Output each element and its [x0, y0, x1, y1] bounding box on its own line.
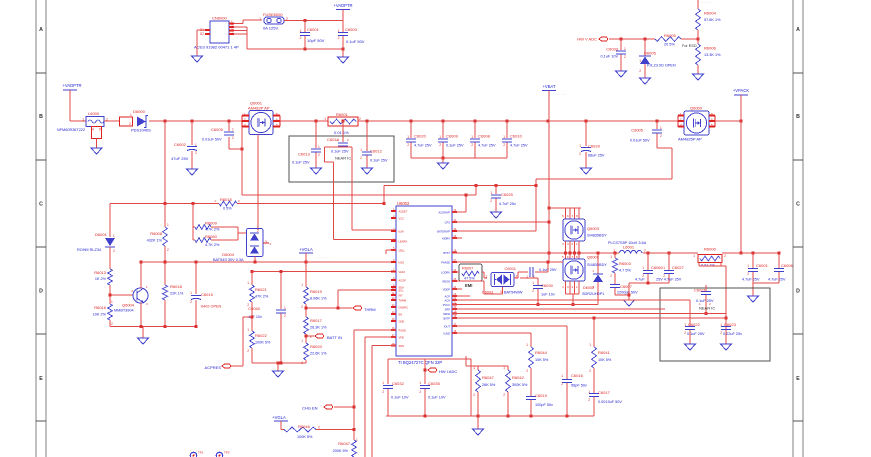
svg-text:R6018: R6018 [170, 284, 183, 289]
shield box (NEAR IC group 2) [660, 288, 770, 361]
wire CN6000 pins 2-4 bus [234, 27, 247, 49]
svg-text:C6007: C6007 [620, 284, 633, 289]
svg-text:R6001: R6001 [336, 112, 349, 117]
svg-text:R6022: R6022 [255, 333, 268, 338]
svg-text:4.7uF 25v: 4.7uF 25v [499, 202, 516, 206]
transistor Q6003 [562, 214, 607, 246]
svg-text:R6047: R6047 [338, 441, 351, 446]
capacitor C6023 [720, 317, 742, 343]
svg-text:1: 1 [356, 438, 358, 442]
svg-text:1uF 10v: 1uF 10v [541, 293, 555, 297]
svg-text:B: B [796, 114, 800, 120]
svg-text:R6016: R6016 [94, 305, 107, 310]
wire R6001 to Q6000 (main +VBAT rail) [315, 120, 679, 123]
wire source net upper [384, 184, 536, 204]
svg-text:1: 1 [284, 306, 286, 310]
power +VPACK [733, 88, 750, 95]
svg-text:2: 2 [300, 36, 302, 40]
capacitor C6008 [470, 121, 496, 158]
svg-text:x: x [270, 242, 272, 246]
svg-text:0.1uF 25V: 0.1uF 25V [331, 150, 349, 154]
svg-text:CPS: CPS [445, 220, 451, 224]
svg-text:1: 1 [589, 343, 591, 347]
svg-text:1: 1 [419, 381, 421, 385]
svg-text:R6021: R6021 [255, 287, 268, 292]
svg-text:2: 2 [532, 289, 534, 293]
wire C6011 out [535, 262, 548, 272]
svg-text:SRP: SRP [445, 307, 451, 311]
svg-text:2: 2 [301, 305, 303, 309]
resistor R6005 [655, 33, 700, 48]
wire C6005B to node [657, 148, 672, 179]
resistor R6019 [301, 262, 327, 317]
svg-text:2: 2 [301, 361, 303, 365]
svg-text:2: 2 [247, 349, 249, 353]
svg-text:IOUT: IOUT [444, 324, 451, 328]
svg-text:1: 1 [300, 29, 302, 33]
svg-text:C6015: C6015 [201, 292, 214, 297]
svg-text:1: 1 [503, 135, 505, 139]
resistor R6001 (sense) [324, 112, 361, 135]
svg-text:1: 1 [684, 323, 686, 327]
svg-text:R6017: R6017 [310, 318, 323, 323]
svg-text:2: 2 [720, 331, 722, 335]
wire Q6003 gate tie [548, 208, 581, 219]
wire U6002 riser3 [372, 346, 396, 457]
svg-text:C6032: C6032 [392, 381, 405, 386]
svg-text:13.3K 1%: 13.3K 1% [704, 53, 721, 57]
svg-text:26.3K 1%: 26.3K 1% [310, 326, 327, 330]
svg-text:ACP: ACP [445, 294, 451, 298]
wire R6047/R6042 feed [466, 356, 508, 366]
capacitor C6002 (polarized) [171, 121, 197, 162]
svg-text:2: 2 [419, 390, 421, 394]
svg-text:R6041: R6041 [598, 350, 611, 355]
connector CN6000 [194, 16, 239, 50]
svg-text:1: 1 [247, 328, 249, 332]
svg-text:R6005: R6005 [664, 33, 677, 38]
svg-text:100K 5%: 100K 5% [255, 341, 271, 345]
wire source net step [465, 186, 477, 213]
wire bus SRN [452, 317, 726, 320]
transistor Q6001 [242, 101, 280, 135]
wire bottom ground rail [386, 415, 594, 418]
svg-text:R6013: R6013 [94, 270, 107, 275]
resistor R6060 [193, 234, 238, 247]
inductor L6000 [57, 111, 108, 139]
wire U6002 SDA/SCL stubs [386, 250, 396, 254]
svg-text:0 5%: 0 5% [223, 207, 232, 211]
svg-text:2: 2 [610, 274, 612, 278]
capacitor C6020 [406, 121, 432, 158]
svg-text:SI4835BDY: SI4835BDY [587, 263, 607, 267]
wire CN6000 shield to ground [197, 30, 205, 51]
svg-text:1: 1 [324, 117, 326, 121]
svg-text:432K 1%: 432K 1% [147, 239, 163, 243]
ground (divider tie) [273, 363, 284, 377]
svg-text:1: 1 [473, 366, 475, 370]
capacitor C6015 (polarized) [190, 262, 221, 328]
svg-text:B: B [39, 114, 43, 120]
svg-text:ACPRES: ACPRES [205, 365, 222, 370]
svg-text:C6005: C6005 [211, 127, 224, 132]
power +VGLA (bottom) [272, 415, 294, 430]
resistor R6017 [304, 317, 327, 343]
svg-text:4: 4 [231, 32, 233, 36]
capacitor C6001B [742, 253, 769, 283]
capacitor C6040 [248, 306, 286, 363]
svg-text:2: 2 [257, 229, 259, 233]
svg-text:+VBAT: +VBAT [542, 84, 556, 89]
wire +VBAT vertical [548, 91, 551, 263]
svg-text:2: 2 [503, 393, 505, 397]
svg-text:C6010: C6010 [510, 134, 523, 139]
wire cap bank ground rail [411, 157, 507, 160]
wire source net horizontal [242, 194, 476, 196]
svg-text:2: 2 [190, 300, 192, 304]
svg-text:2: 2 [284, 314, 286, 318]
wire ACPRES riser [231, 316, 254, 367]
svg-text:47uF 25V: 47uF 25V [171, 156, 189, 161]
capacitor C6030 [520, 278, 555, 306]
resistor R6015 [214, 197, 240, 211]
svg-text:Q6004: Q6004 [122, 303, 135, 308]
svg-text:CHG EN: CHG EN [302, 406, 318, 411]
wire Q6002 bottom tie [566, 281, 580, 306]
ground (C6013) [311, 163, 322, 174]
svg-text:1: 1 [490, 191, 492, 195]
svg-text:R6020: R6020 [310, 344, 323, 349]
svg-text:C6008: C6008 [478, 134, 491, 139]
svg-text:1: 1 [561, 374, 563, 378]
svg-text:1: 1 [259, 17, 261, 21]
svg-text:CELL: CELL [399, 248, 406, 252]
wire PHASE pin [452, 261, 563, 264]
svg-text:SRN: SRN [399, 344, 405, 348]
capacitor C6033 [600, 39, 626, 67]
svg-text:C6002: C6002 [174, 142, 187, 147]
svg-text:68uF 25V: 68uF 25V [588, 154, 605, 158]
wire U6002 riser2 [365, 337, 396, 457]
svg-text:4.7uF 25V: 4.7uF 25V [742, 278, 760, 282]
svg-text:R6019: R6019 [310, 289, 323, 294]
svg-text:2: 2 [111, 322, 113, 326]
wire main charge rail [452, 252, 779, 255]
svg-text:1: 1 [318, 145, 320, 149]
resistor R6047 [473, 366, 496, 416]
svg-text:PHASE: PHASE [441, 260, 450, 264]
wire divider feed [192, 204, 194, 241]
svg-text:+VGLA: +VGLA [299, 247, 313, 252]
ground (C6022) [685, 339, 696, 350]
svg-text:2: 2 [382, 390, 384, 394]
svg-text:4.7uF 25V: 4.7uF 25V [478, 144, 496, 148]
wire bottom return [247, 48, 345, 51]
power +VADPTR (top) [333, 3, 352, 21]
capacitor C6016 [561, 326, 587, 416]
wire Q6003 to rail [566, 241, 580, 253]
svg-text:2: 2 [579, 152, 581, 156]
svg-text:2: 2 [490, 199, 492, 203]
svg-text:D: D [39, 289, 43, 295]
net flag BATT IN [305, 334, 343, 340]
svg-text:CN6000: CN6000 [212, 16, 227, 21]
svg-text:For ESD: For ESD [682, 44, 697, 48]
svg-text:C6005: C6005 [631, 128, 644, 133]
ground (D6005) [640, 73, 651, 84]
net flag HW I ADC [424, 368, 458, 374]
wire bus PGND sense [452, 304, 598, 306]
svg-text:0.1uF 10V: 0.1uF 10V [428, 396, 446, 400]
wire L6000 to D6000 [104, 120, 119, 122]
ground (C6033) [616, 66, 627, 77]
svg-text:1K 2%: 1K 2% [95, 277, 107, 281]
svg-text:ACES 91982 00471 1 4P: ACES 91982 00471 1 4P [194, 45, 239, 50]
svg-text:2: 2 [644, 249, 646, 253]
svg-text:R6006: R6006 [704, 46, 717, 51]
resistor R6004 [696, 0, 721, 44]
svg-text:0.1uF 10V: 0.1uF 10V [600, 55, 618, 59]
svg-text:C6006: C6006 [781, 263, 794, 268]
capacitor C6021 [694, 285, 715, 315]
zener diode D6005 [639, 39, 676, 74]
wire Q6001 to R6001 [280, 120, 328, 122]
svg-text:0.1uF 50V: 0.1uF 50V [346, 39, 365, 44]
svg-text:IADJ: IADJ [399, 260, 405, 264]
svg-text:PDS1040S: PDS1040S [131, 128, 151, 133]
svg-text:CMSRC: CMSRC [399, 305, 409, 309]
wire VGLA rail [141, 261, 396, 264]
svg-text:C6001: C6001 [756, 263, 769, 268]
svg-text:1: 1 [232, 128, 234, 132]
wire HIDRV [452, 221, 548, 223]
wire C6014 right leg [352, 147, 396, 230]
wire bus ILIM [452, 332, 531, 334]
ground (C6025) [491, 207, 502, 218]
svg-text:26K 5%: 26K 5% [482, 383, 496, 387]
svg-text:2: 2 [747, 272, 749, 276]
svg-text:EN: EN [399, 312, 403, 316]
svg-text:C6035: C6035 [428, 381, 441, 386]
ground (cap bank) [438, 158, 449, 169]
svg-text:NEAR IC: NEAR IC [335, 156, 351, 161]
svg-text:10K 2%: 10K 2% [93, 313, 107, 317]
wire bus row4 [452, 308, 665, 310]
svg-text:NEAR IC: NEAR IC [699, 306, 715, 311]
wire Q6000 to +VPACK [715, 120, 743, 123]
svg-text:4.7uF 25V: 4.7uF 25V [768, 278, 786, 282]
wire R6021 net to U6002 [252, 270, 396, 273]
svg-text:R6046: R6046 [298, 424, 311, 429]
ground (C6029) [581, 163, 592, 174]
svg-text:2: 2 [526, 369, 528, 373]
svg-text:BAT54S 30V 0.3A: BAT54S 30V 0.3A [213, 258, 244, 262]
power +VBAT [542, 84, 565, 96]
capacitor C6019 [526, 393, 553, 416]
svg-text:C6012: C6012 [370, 149, 383, 154]
svg-text:THRM: THRM [364, 307, 376, 312]
wire CN6000 pin1 to fuse [234, 20, 262, 24]
inductor L6001 [608, 241, 647, 253]
svg-text:0.22uF 25v: 0.22uF 25v [723, 332, 742, 336]
svg-text:0.01uF 50V: 0.01uF 50V [630, 139, 650, 143]
svg-text:1: 1 [579, 144, 581, 148]
svg-text:1: 1 [382, 381, 384, 385]
wire C6005 to gate net [229, 137, 244, 151]
svg-text:0.0013uF 50V: 0.0013uF 50V [598, 400, 622, 404]
capacitor C6032 [382, 381, 409, 416]
wire U6002 EN riser1 [354, 330, 396, 440]
svg-text:THRM: THRM [399, 298, 407, 302]
wire BTST stub [452, 237, 462, 239]
svg-text:0.01 1%: 0.01 1% [334, 130, 349, 135]
ground (C6012) [362, 163, 373, 174]
svg-text:C6030: C6030 [541, 283, 554, 288]
svg-text:E: E [39, 376, 43, 382]
svg-text:C6027: C6027 [672, 265, 685, 270]
svg-text:ACOP: ACOP [399, 278, 407, 282]
ground (R6006) [693, 69, 704, 80]
svg-text:C6022: C6022 [688, 322, 701, 327]
svg-text:1: 1 [82, 118, 84, 122]
svg-text:2: 2 [113, 249, 115, 253]
svg-text:1: 1 [439, 135, 441, 139]
svg-text:R6044: R6044 [535, 350, 548, 355]
svg-text:0.1uF 25V: 0.1uF 25V [292, 161, 310, 165]
resistor R6042 [503, 366, 528, 416]
svg-text:BTST: BTST [443, 251, 450, 255]
ground (C6001/C6006) [748, 291, 759, 302]
svg-text:0.1uF 10V: 0.1uF 10V [391, 396, 409, 400]
svg-text:22K 1%: 22K 1% [170, 292, 184, 296]
svg-text:FUSE6000: FUSE6000 [263, 12, 283, 17]
svg-text:1: 1 [588, 390, 590, 394]
capacitor C6001 [300, 21, 325, 50]
svg-text:SCL: SCL [399, 288, 405, 292]
svg-text:C6029: C6029 [588, 144, 601, 149]
transistor Q6004 [114, 285, 148, 313]
svg-text:+VADPTR: +VADPTR [333, 3, 352, 8]
svg-text:HIDRV: HIDRV [442, 236, 450, 240]
zener diode D6001 [77, 204, 115, 270]
svg-text:C: C [39, 201, 43, 207]
svg-text:R6009: R6009 [205, 221, 218, 226]
resistor R6006 [696, 44, 721, 71]
svg-text:25V 4.7uF 25V: 25V 4.7uF 25V [656, 278, 682, 282]
net flag THRM [305, 306, 376, 312]
svg-text:E: E [796, 376, 800, 382]
wire C6001/C6006 tie [753, 283, 779, 294]
svg-text:1: 1 [503, 366, 505, 370]
svg-text:LEARN: LEARN [399, 239, 408, 243]
svg-text:D6005: D6005 [644, 51, 657, 56]
svg-text:100K 5%: 100K 5% [297, 435, 313, 439]
svg-text:2: 2 [588, 398, 590, 402]
transistor Q6000 [678, 106, 715, 142]
svg-text:INT: INT [399, 293, 404, 297]
wire bottom tie (R6022/C6040/R6020) [252, 362, 306, 365]
resistor R6020 [301, 339, 327, 365]
wire bottom tie row C [110, 325, 196, 328]
net flag HW V ADC [577, 37, 607, 42]
wire THRM to U6002 [337, 290, 397, 310]
svg-text:2: 2 [232, 136, 234, 140]
svg-text:REGN: REGN [443, 279, 451, 283]
ground (row C tie) [138, 327, 149, 345]
svg-text:+VPACK: +VPACK [733, 88, 750, 93]
svg-text:Q6003: Q6003 [587, 226, 600, 231]
svg-text:4: 4 [92, 128, 94, 132]
ground (CN6000 shield) [192, 51, 203, 62]
dual diode D6003 [482, 273, 523, 295]
svg-text:ACN: ACN [445, 298, 451, 302]
svg-text:0402 OPEN: 0402 OPEN [201, 305, 222, 309]
test point TP2 [216, 451, 230, 457]
svg-text:PVCC: PVCC [443, 303, 450, 307]
wire Q6002 top stubs [566, 253, 580, 259]
capacitor C6029 (polarized) [579, 121, 605, 164]
svg-text:4.7uF: 4.7uF [635, 278, 645, 282]
svg-text:+VADPTR: +VADPTR [62, 83, 81, 88]
svg-text:1: 1 [190, 291, 192, 295]
power +VGLA (row C) [299, 247, 330, 262]
svg-text:47K 2%: 47K 2% [255, 295, 269, 299]
svg-text:SI4835BDY: SI4835BDY [587, 234, 607, 238]
svg-text:C6011: C6011 [505, 266, 517, 271]
wire ACDRV [452, 211, 466, 213]
svg-text:2: 2 [359, 117, 361, 121]
capacitor C6014 [327, 121, 351, 161]
resistor R6047B [333, 438, 358, 457]
wire BTST to U6002 [452, 230, 536, 232]
svg-text:C6003: C6003 [345, 27, 358, 32]
capacitor C6027 [656, 253, 685, 283]
svg-text:D: D [796, 289, 800, 295]
wire U6002 to EMI box [452, 271, 459, 273]
svg-text:R6007: R6007 [462, 267, 473, 271]
capacitor C6012 [360, 121, 388, 164]
svg-text:200K 5%: 200K 5% [333, 449, 349, 453]
svg-text:C6001: C6001 [307, 27, 320, 32]
svg-text:D6001: D6001 [95, 232, 108, 237]
resistor R6022 [247, 328, 271, 363]
capacitor C6013 [292, 121, 321, 165]
svg-text:L6001: L6001 [623, 245, 635, 250]
transistor Q6002 [562, 255, 607, 290]
svg-text:3: 3 [500, 290, 502, 294]
svg-text:ACDET: ACDET [399, 209, 408, 213]
svg-text:10K 5%: 10K 5% [535, 358, 549, 362]
svg-text:1: 1 [624, 47, 626, 51]
capacitor C6003 [338, 21, 365, 50]
svg-text:4.7K 2%: 4.7K 2% [205, 228, 220, 232]
svg-text:C6060: C6060 [651, 265, 664, 270]
svg-text:+VGLA: +VGLA [272, 415, 286, 420]
wire bus to C6021 [452, 299, 690, 301]
svg-text:2: 2 [589, 369, 591, 373]
svg-text:PGND: PGND [399, 328, 407, 332]
resistor R6003 [610, 253, 631, 284]
svg-text:2: 2 [642, 274, 644, 278]
diode D6000 [131, 109, 151, 133]
svg-text:1: 1 [532, 281, 534, 285]
capacitor C6007 [610, 284, 638, 295]
svg-text:1: 1 [301, 283, 303, 287]
svg-text:5: 5 [99, 128, 101, 132]
svg-text:EMI: EMI [465, 283, 472, 288]
svg-text:1: 1 [693, 254, 695, 258]
svg-text:1: 1 [130, 113, 132, 117]
